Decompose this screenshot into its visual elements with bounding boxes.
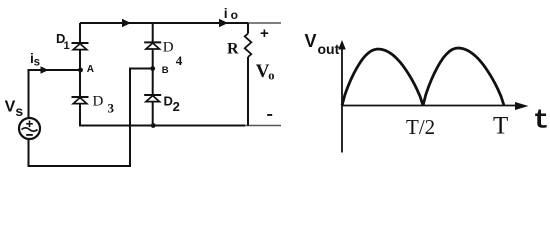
svg-text:out: out [318, 41, 340, 57]
svg-text:V: V [5, 99, 16, 116]
svg-text:B: B [162, 65, 169, 76]
svg-text:t: t [533, 107, 549, 137]
svg-text:T: T [493, 113, 508, 140]
svg-text:2: 2 [173, 99, 180, 114]
svg-text:i: i [224, 5, 228, 21]
svg-text:R: R [227, 41, 239, 58]
svg-text:o: o [231, 8, 238, 22]
svg-text:1: 1 [64, 40, 70, 52]
svg-text:D: D [93, 94, 104, 110]
svg-text:D: D [164, 94, 173, 109]
svg-text:4: 4 [176, 53, 183, 68]
svg-text:+: + [260, 25, 269, 42]
svg-text:s: s [34, 56, 40, 68]
svg-text:V: V [305, 31, 317, 51]
svg-text:o: o [268, 68, 274, 82]
svg-text:T/2: T/2 [406, 115, 435, 139]
svg-text:3: 3 [108, 101, 115, 116]
svg-text:s: s [15, 103, 23, 119]
svg-text:A: A [87, 64, 94, 75]
svg-text:D: D [163, 40, 174, 56]
